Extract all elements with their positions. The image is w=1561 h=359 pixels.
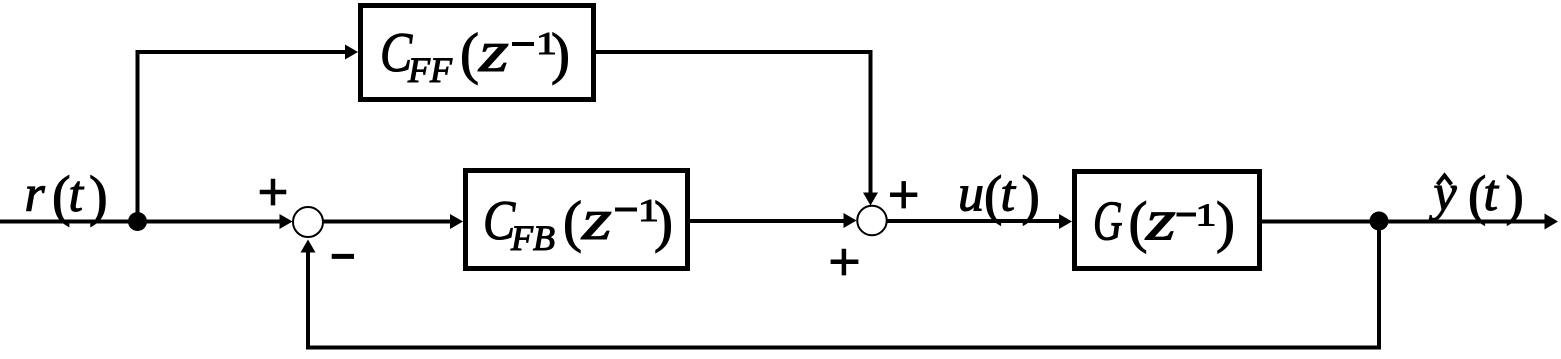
label C_FF(z^-1) xyxy=(380,19,570,90)
arrowhead into summer S2 top xyxy=(863,193,878,206)
summer S2 circle xyxy=(857,206,887,236)
svg-text:): ) xyxy=(89,166,108,228)
svg-text:z: z xyxy=(1145,187,1176,252)
svg-text:z: z xyxy=(478,19,509,84)
wire: input r(t) line into summer S1 xyxy=(0,220,280,224)
svg-text:y: y xyxy=(1429,165,1458,222)
wire: S1 to C_FB xyxy=(324,220,451,224)
arrowhead into C_FF xyxy=(345,45,358,60)
label G(z^-1) xyxy=(1093,187,1235,254)
wire: G output to y(t) xyxy=(1262,220,1546,224)
svg-text:): ) xyxy=(551,23,570,86)
summer S1 circle xyxy=(293,207,323,237)
arrowhead into G xyxy=(1059,214,1072,229)
label r(t) xyxy=(25,166,108,228)
svg-text:): ) xyxy=(1022,165,1040,226)
svg-text:(: ( xyxy=(460,23,479,86)
plus sign at S2 upper-right xyxy=(890,181,917,208)
svg-text:(: ( xyxy=(563,191,582,254)
svg-text:t: t xyxy=(1484,165,1500,222)
svg-text:t: t xyxy=(1001,166,1017,223)
wire: C_FF output right then down to summer S2 xyxy=(596,52,871,193)
arrowhead into summer S1 left xyxy=(280,214,293,229)
label u(t) xyxy=(958,165,1040,226)
minus sign at S1 lower-right xyxy=(332,254,354,259)
svg-text:u: u xyxy=(958,166,984,223)
svg-text:(: ( xyxy=(1129,191,1148,254)
plus sign at S2 lower-left xyxy=(831,249,859,276)
svg-text:z: z xyxy=(581,187,612,252)
svg-text:r: r xyxy=(25,166,46,223)
block G rectangle xyxy=(1075,172,1260,269)
arrowhead into C_FB xyxy=(450,214,463,229)
plus sign at S1 upper-left xyxy=(260,179,287,206)
svg-text:1: 1 xyxy=(1196,198,1217,233)
wire: feedback bottom horizontal xyxy=(306,346,1381,350)
wire: branch up from node xyxy=(136,50,140,222)
block C_FF rectangle xyxy=(361,6,594,100)
node: branch junction dot on r(t) line xyxy=(128,212,147,231)
arrowhead into summer S2 left xyxy=(844,213,857,228)
svg-text:t: t xyxy=(69,166,85,223)
block C_FB rectangle xyxy=(466,171,688,269)
svg-text:): ) xyxy=(1506,165,1524,226)
svg-text:): ) xyxy=(1216,191,1235,254)
hat over y xyxy=(1438,176,1452,185)
wire: feedback down from output node xyxy=(1377,221,1381,348)
svg-text:FB: FB xyxy=(510,218,555,258)
svg-text:FF: FF xyxy=(407,50,453,90)
wire: top horizontal into C_FF xyxy=(136,50,347,54)
node: output junction dot xyxy=(1370,212,1389,231)
wire: C_FB to summer S2 xyxy=(690,219,844,223)
arrowhead output right xyxy=(1545,214,1559,230)
svg-text:G: G xyxy=(1093,189,1123,252)
wire: feedback up into summer S1 bottom xyxy=(306,251,310,350)
wire: S2 to G xyxy=(888,219,1060,223)
label y-hat(t) xyxy=(1429,165,1524,226)
arrowhead into summer S1 bottom xyxy=(301,240,316,253)
label C_FB(z^-1) xyxy=(483,187,673,258)
svg-text:): ) xyxy=(654,191,673,254)
